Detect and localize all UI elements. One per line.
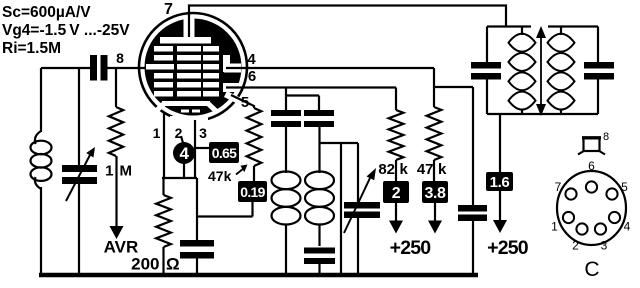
current box 0.65: [195, 147, 209, 149]
svg-text:6: 6: [588, 159, 595, 173]
svg-text:1: 1: [153, 125, 161, 141]
wire: left vertical branch: [40, 68, 42, 132]
svg-text:+250: +250: [487, 237, 529, 259]
svg-text:7: 7: [164, 1, 173, 18]
capacitor: cathode bypass: [180, 240, 214, 247]
tube anode bar: [160, 37, 211, 44]
svg-text:47: 47: [417, 161, 434, 178]
variable capacitor: tuning cap C-ant: [78, 68, 80, 165]
white notch for pin labels 2 3: [170, 116, 208, 131]
wire: screen decoupling branch: [434, 86, 473, 88]
resistor 47k osc grid: [247, 108, 262, 166]
osc transformer: left cap: [271, 110, 301, 116]
current circle 4: [173, 142, 195, 164]
svg-text:0.19: 0.19: [240, 184, 265, 200]
svg-text:3: 3: [601, 239, 608, 253]
svg-text:Sc=600µA/V: Sc=600µA/V: [2, 4, 91, 21]
ground rail: [39, 273, 478, 278]
tube grids: [154, 46, 173, 52]
svg-text:C: C: [584, 258, 599, 281]
right branch + cap: [597, 27, 599, 63]
svg-text:8: 8: [603, 131, 609, 143]
wire: pin2 lead to meter circle: [181, 136, 183, 143]
wire: anode pin7 top lead to output transformer: [189, 6, 506, 28]
socket pin 4: [609, 212, 620, 223]
wire: B+ feed with 1.6 box: [499, 114, 501, 172]
wire: pin3 lead: [194, 120, 196, 178]
wire: pin6 (osc anode): [226, 86, 396, 88]
osc transformer: right coil: [318, 127, 320, 173]
primary coil: [521, 27, 523, 36]
resistor 82k: [389, 110, 404, 160]
resistor 200 ohm cathode: [162, 178, 164, 195]
left branch + cap: [486, 27, 488, 63]
svg-text:3.8: 3.8: [424, 185, 446, 202]
svg-text:Vg4=-1.5 V ...-25V: Vg4=-1.5 V ...-25V: [2, 22, 130, 39]
wire: pin5 lead: [231, 95, 254, 108]
wire: grid pin8 lead (left of coupling cap): [41, 67, 90, 69]
tube cathode: [162, 101, 210, 106]
svg-text:1: 1: [105, 163, 113, 180]
svg-text:200: 200: [131, 255, 159, 274]
svg-text:Ri=1.5M: Ri=1.5M: [2, 40, 61, 57]
output IF transformer top rails: [487, 25, 531, 27]
osc transformer: right cap: [304, 110, 334, 116]
svg-text:6: 6: [248, 68, 256, 85]
coupling arrows: [540, 36, 542, 106]
socket diagram top cap pin 8: [584, 138, 600, 151]
svg-text:2: 2: [392, 185, 401, 202]
socket pin 1: [563, 212, 574, 223]
current box 2: [383, 181, 409, 203]
svg-text:82: 82: [378, 161, 395, 178]
tube: octode mixer envelope: [139, 13, 247, 121]
svg-text:+250: +250: [390, 237, 432, 259]
svg-text:k: k: [400, 161, 409, 178]
wire: pin4 (screen): [226, 67, 434, 69]
svg-text:Ω: Ω: [166, 255, 180, 274]
svg-text:4: 4: [247, 51, 256, 68]
svg-text:2: 2: [572, 239, 579, 253]
current box 3.8: [422, 181, 448, 203]
svg-text:7: 7: [555, 180, 562, 194]
current box 0.19: [238, 181, 267, 202]
svg-text:5: 5: [621, 180, 628, 194]
secondary coil: [560, 27, 562, 36]
AVR arrow: [115, 156, 117, 227]
resistor: 1M grid leak: [115, 68, 117, 107]
svg-text:1: 1: [551, 220, 558, 234]
osc transformer: left coil: [285, 127, 287, 173]
inductor: antenna coil: [35, 131, 41, 144]
wire: cap to tube grid pin8: [108, 67, 164, 69]
capacitor: osc bottom cap: [304, 248, 335, 254]
socket pin 5: [606, 188, 617, 199]
resistor 47k screen feed: [427, 107, 442, 160]
svg-text:4: 4: [624, 220, 631, 234]
tube pin stubs right: [223, 55, 230, 72]
socket pin 3: [595, 223, 606, 234]
wire: jog to osc transformer caps: [285, 88, 287, 111]
capacitor: screen bypass: [458, 205, 487, 212]
capacitor: grid coupling cap: [90, 55, 97, 81]
svg-text:8: 8: [116, 50, 124, 66]
socket pin 2: [576, 223, 587, 234]
svg-text:0.65: 0.65: [212, 145, 237, 161]
socket circle: [557, 171, 626, 245]
socket pin 7: [565, 188, 576, 199]
svg-text:1.6: 1.6: [490, 174, 510, 191]
svg-text:3: 3: [199, 125, 207, 141]
socket pin 6: [586, 181, 597, 192]
variable capacitor: osc tuning: [320, 142, 359, 144]
svg-text:4: 4: [179, 144, 189, 163]
transformer bottom rail: [487, 113, 598, 115]
svg-text:M: M: [120, 163, 133, 180]
wire: cathode pin1 lead: [163, 112, 165, 178]
svg-text:k: k: [438, 161, 447, 178]
svg-text:47k: 47k: [208, 168, 232, 184]
